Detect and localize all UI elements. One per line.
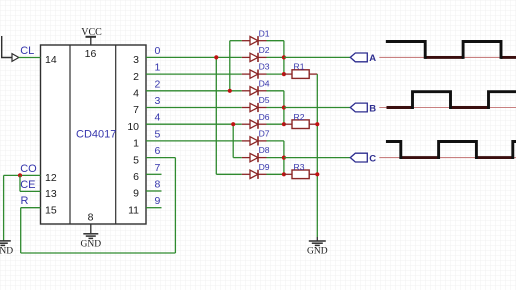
node junction output 0 [214,55,218,59]
svg-text:B: B [369,103,376,114]
resistor R2 [284,120,317,129]
svg-text:VCC: VCC [81,27,102,38]
wire output 9 stub [146,207,162,209]
waveform A trace [387,42,516,58]
svg-text:6: 6 [155,145,161,157]
svg-text:C: C [369,153,376,164]
waveform C trace [387,142,516,158]
svg-text:R2: R2 [294,112,305,122]
svg-text:A: A [369,53,376,64]
node junction bus C port row [282,156,286,160]
svg-text:D7: D7 [259,129,270,139]
svg-text:R1: R1 [294,62,305,72]
svg-text:8: 8 [88,212,94,224]
node junction bus C R3 row [282,172,286,176]
svg-text:6: 6 [133,171,139,183]
resistor R1 [284,70,317,79]
node junction output 2 [228,89,232,93]
node junction output 4 [231,122,235,126]
resistor R3 [284,170,317,179]
port A [350,53,367,62]
svg-text:D1: D1 [259,28,270,38]
wire node C to port [284,157,350,159]
wire reset loop right vertical [174,158,176,253]
svg-text:CO: CO [20,163,37,175]
node junction bus A port row [282,55,286,59]
wire node B to port [284,107,350,109]
svg-text:R3: R3 [294,162,305,172]
diode D4 [242,86,267,95]
node junction R2 ground [315,122,319,126]
svg-text:9: 9 [133,188,139,200]
svg-text:13: 13 [45,188,57,200]
wire D1 anode feed [230,40,242,42]
svg-text:1: 1 [133,138,139,150]
wire CL to pin 14 [19,57,41,59]
diode D6 [242,120,267,129]
svg-text:4: 4 [133,88,139,100]
node junction bus B port row [282,105,286,109]
diode D8 [242,153,267,162]
svg-text:CL: CL [20,45,34,57]
diode D5 [242,103,267,112]
wire output 4 to D8 vertical [232,124,234,157]
wire clock input (black) [2,36,12,58]
svg-text:16: 16 [85,48,97,60]
wire cathode bus group C [283,141,285,174]
waveform C baseline [379,157,516,159]
svg-text:GND: GND [0,246,13,256]
svg-text:D5: D5 [259,95,270,105]
node junction CO/CE [18,173,22,177]
svg-text:R: R [21,195,29,207]
svg-text:5: 5 [155,128,161,140]
svg-text:7: 7 [155,162,161,174]
svg-text:5: 5 [133,154,139,166]
wire node A to port [284,56,350,58]
ground symbol IC pin 8 [83,234,98,239]
wire D3 cathode to bus [267,73,284,75]
wire ground bus vertical [316,74,318,237]
svg-text:CE: CE [20,179,35,191]
svg-text:2: 2 [155,78,161,90]
diode D7 [242,136,267,145]
node junction bus A R1 row [282,72,286,76]
wire D2 cathode to bus [267,56,284,58]
wire output 2 to D1 vertical [229,41,231,91]
wire output 2 to diode column [146,90,242,92]
svg-text:15: 15 [45,204,57,216]
svg-text:10: 10 [127,121,139,133]
svg-text:9: 9 [155,195,161,207]
IC U1 CD4017 body [41,45,147,224]
wire CO to CE vertical [19,175,21,191]
node junction bus B R2 row [282,122,286,126]
svg-text:14: 14 [45,54,57,66]
wire R pin 15 [21,207,41,209]
wire output 3 to diode column [146,107,242,109]
wire D9 anode feed [216,173,242,175]
wire D4 cathode to bus [267,90,284,92]
wire reset loop bottom [21,252,176,254]
svg-text:1: 1 [155,62,161,74]
svg-text:8: 8 [155,179,161,191]
svg-text:7: 7 [133,104,139,116]
wire output 6 stub [146,157,175,159]
svg-text:CD4017: CD4017 [76,129,116,141]
waveform A baseline [379,56,516,58]
diode D1 [242,36,267,45]
svg-text:D3: D3 [259,62,270,72]
node junction R3 ground [315,172,319,176]
wire output 0 to diode column [146,56,242,58]
wire output 8 stub [146,190,162,192]
wire output 7 stub [146,173,162,175]
diode D9 [242,170,267,179]
waveform B trace [387,92,516,108]
port B [350,103,367,112]
svg-text:2: 2 [133,71,139,83]
power VCC symbol [86,37,97,45]
wire D1 cathode to bus [267,40,284,42]
svg-text:D2: D2 [259,45,270,55]
wire D8 cathode to bus [267,157,284,159]
waveform B baseline [379,107,516,109]
svg-text:D6: D6 [259,112,270,122]
wire D8 anode feed [233,157,242,159]
wire output 4 to diode column [146,123,242,125]
wire reset loop left vertical [20,208,22,253]
ground symbol right [309,237,326,245]
wire CE pin 13 [20,190,41,192]
wire output 1 to diode column [146,73,242,75]
wire CO pin 12 [4,174,41,176]
svg-text:GND: GND [81,240,102,250]
svg-text:GND: GND [307,247,328,257]
wire D9 cathode to bus [267,173,284,175]
diode D3 [242,70,267,79]
svg-text:D4: D4 [259,78,270,88]
svg-text:3: 3 [155,95,161,107]
clock input arrow terminal [12,54,19,62]
wire D7 cathode to bus [267,140,284,142]
port C [350,153,367,162]
diode D2 [242,53,267,62]
svg-text:12: 12 [45,172,57,184]
ground symbol left [0,241,11,246]
wire D6 cathode to bus [267,123,284,125]
svg-text:11: 11 [128,204,139,216]
wire cathode bus group B [283,91,285,124]
wire pin 8 to ground [90,224,92,233]
wire cathode bus group A [283,41,285,74]
svg-text:3: 3 [133,54,139,66]
wire D5 cathode to bus [267,107,284,109]
svg-text:D8: D8 [259,145,270,155]
wire CO to ground [3,175,5,240]
svg-text:D9: D9 [259,162,270,172]
wire output 5 to diode column [146,140,242,142]
svg-text:4: 4 [155,112,161,124]
wire output 0 to D9 vertical [215,57,217,174]
svg-text:0: 0 [155,45,161,57]
